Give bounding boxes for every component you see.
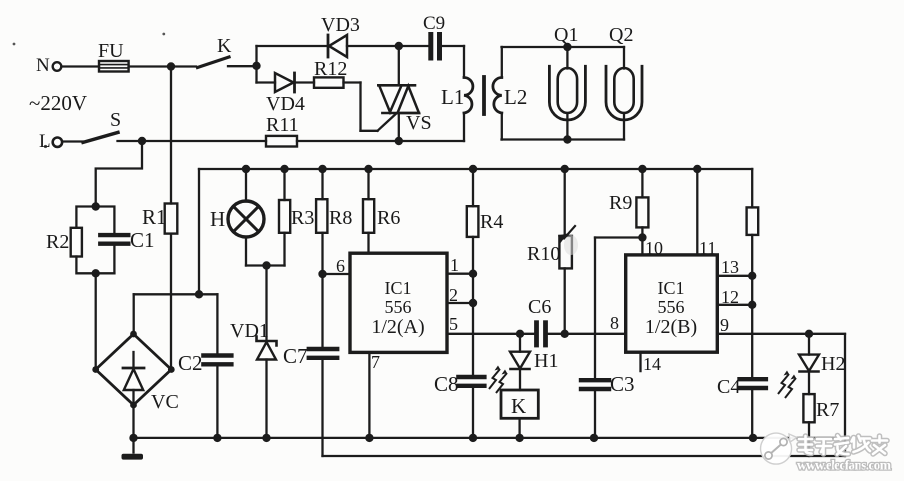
svg-text:1/2(A): 1/2(A) [371,316,424,338]
svg-text:R2: R2 [46,231,69,253]
svg-text:VC: VC [151,391,179,413]
svg-text:N: N [36,55,50,76]
svg-text:6: 6 [336,256,345,276]
svg-text:IC1: IC1 [385,278,412,298]
svg-text:R9: R9 [609,192,632,214]
svg-text:VD3: VD3 [321,14,360,36]
svg-text:H: H [210,207,225,231]
svg-text:C2: C2 [178,351,203,375]
svg-text:K: K [511,394,526,418]
svg-text:R6: R6 [377,207,400,229]
svg-text:Q2: Q2 [609,24,633,46]
svg-text:7: 7 [371,352,380,372]
svg-text:10: 10 [645,238,663,258]
svg-text:L1: L1 [441,85,464,109]
svg-text:8: 8 [610,313,619,333]
svg-text:C4: C4 [717,376,740,398]
svg-text:C6: C6 [528,296,551,318]
svg-text:R4: R4 [480,211,503,233]
svg-text:C8: C8 [434,372,459,396]
svg-text:5: 5 [449,314,458,334]
svg-text:VD4: VD4 [266,93,305,115]
svg-text:K: K [217,35,232,57]
svg-text:1/2(B): 1/2(B) [645,316,697,338]
svg-text:R7: R7 [816,399,839,421]
svg-text:C7: C7 [283,344,308,368]
svg-text:L2: L2 [504,85,527,109]
svg-text:11: 11 [699,238,716,258]
svg-text:FU: FU [98,40,124,62]
svg-text:H1: H1 [534,350,558,372]
svg-text:1: 1 [450,255,459,275]
svg-text:R12: R12 [314,58,347,80]
svg-text:C3: C3 [610,372,635,396]
svg-text:VD1: VD1 [230,320,269,342]
svg-text:L: L [39,131,51,152]
svg-text:IC1: IC1 [658,278,685,298]
svg-text:R8: R8 [329,207,352,229]
svg-text:H2: H2 [821,353,845,375]
svg-text:9: 9 [720,315,729,335]
svg-text:556: 556 [385,297,412,317]
svg-text:Q1: Q1 [554,24,578,46]
svg-text:S: S [110,109,121,131]
svg-text:~220V: ~220V [29,91,87,115]
svg-text:R3: R3 [291,207,314,229]
svg-text:VS: VS [406,112,432,134]
svg-text:R11: R11 [266,114,299,136]
svg-text:556: 556 [658,297,685,317]
svg-text:12: 12 [721,287,739,307]
svg-text:14: 14 [643,354,661,374]
svg-text:2: 2 [449,285,458,305]
svg-text:R10: R10 [527,243,560,265]
svg-text:C1: C1 [130,228,155,252]
svg-text:13: 13 [721,257,739,277]
svg-text:www.elecfans.com: www.elecfans.com [797,458,892,473]
svg-text:C9: C9 [423,13,445,34]
svg-text:R1: R1 [142,205,167,229]
